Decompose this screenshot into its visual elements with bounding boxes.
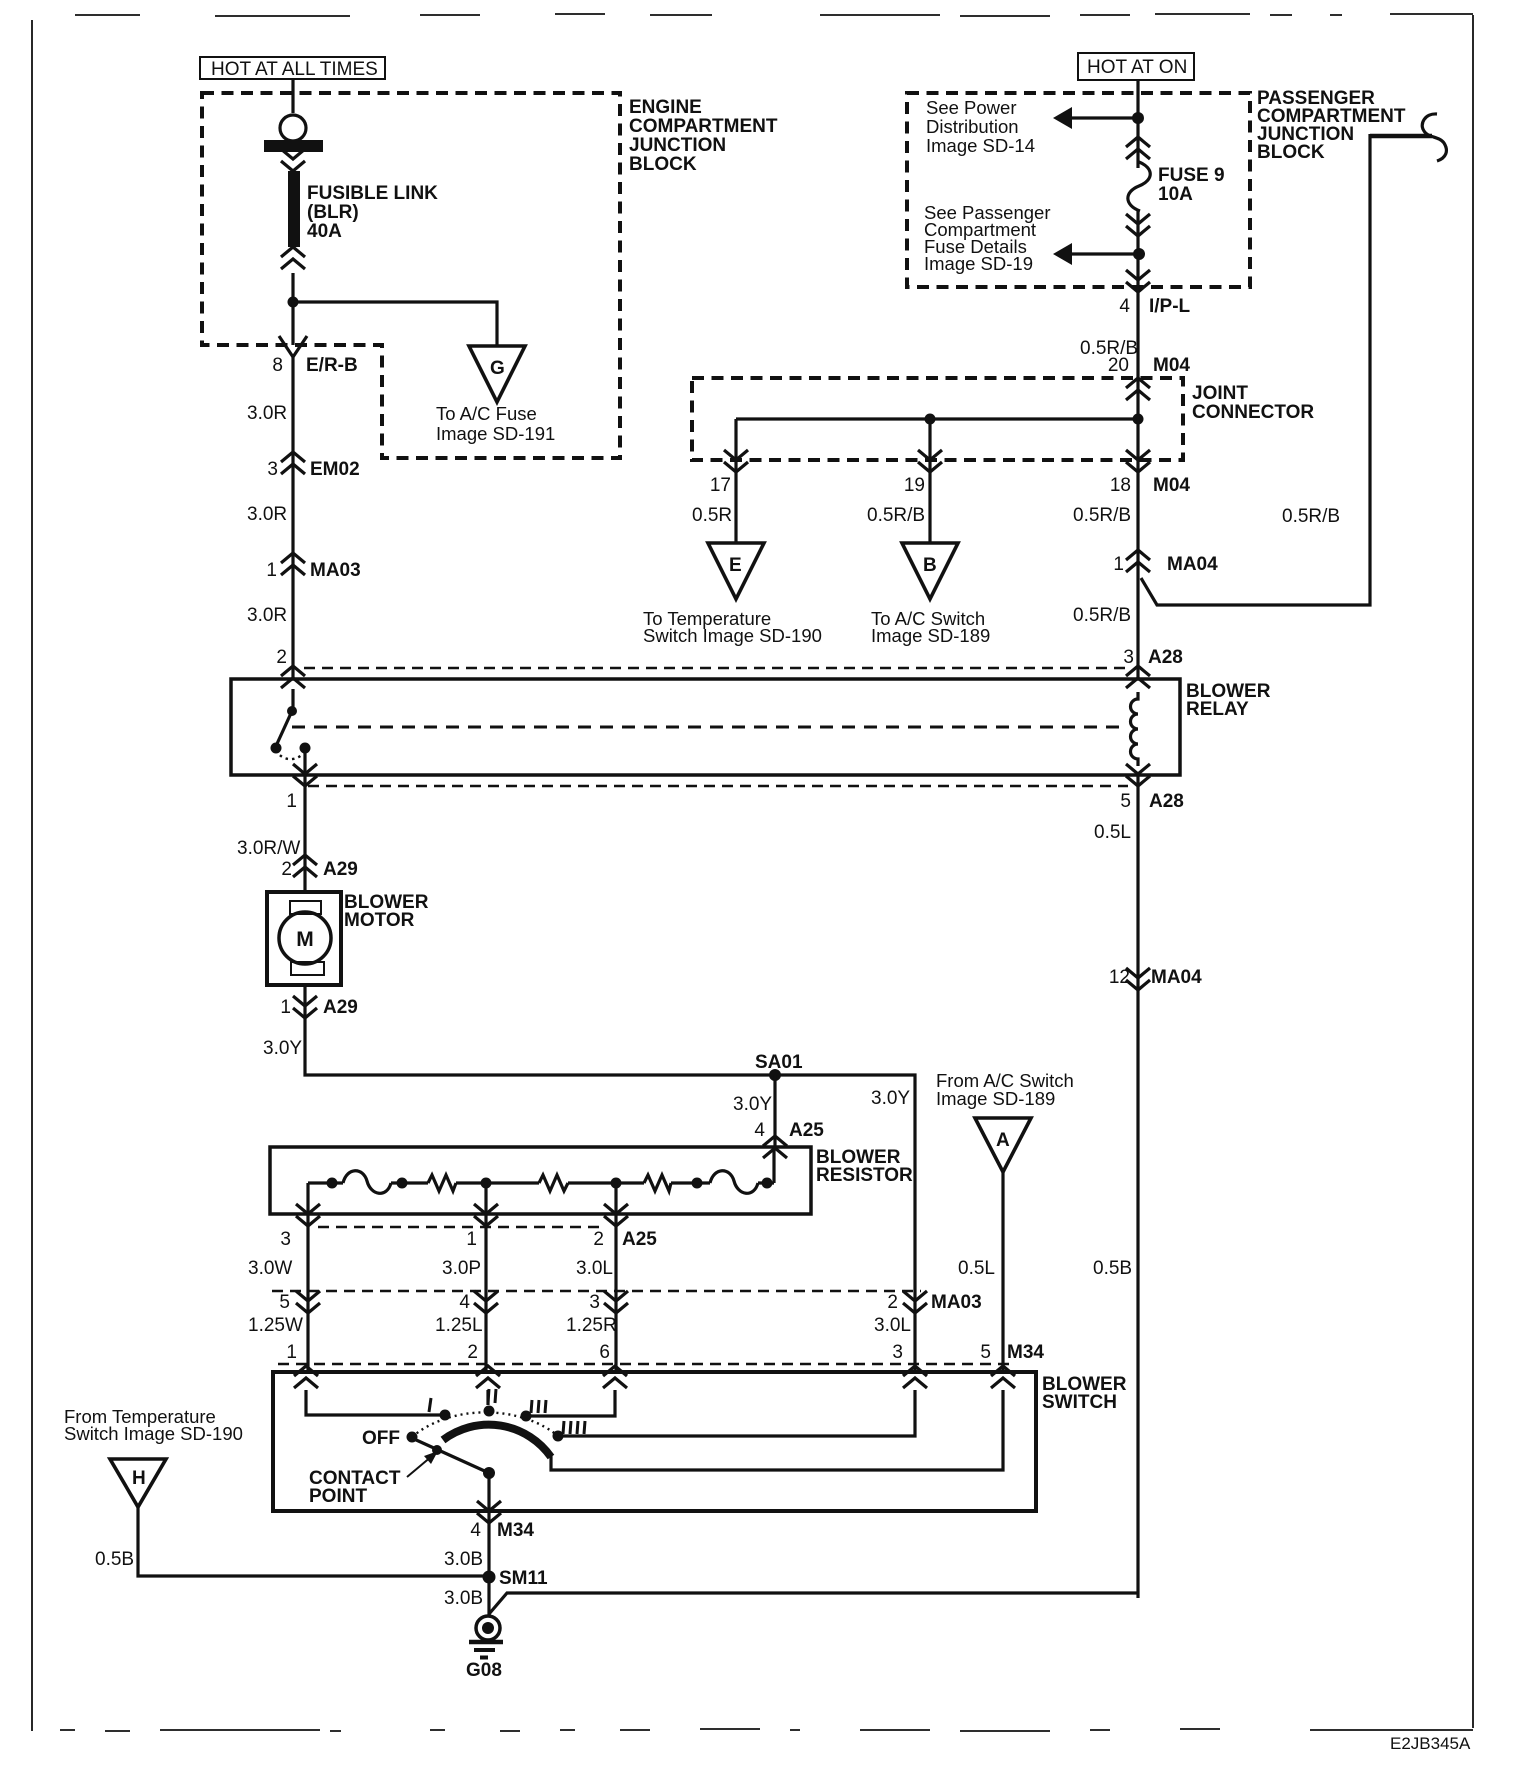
svg-text:3.0B: 3.0B xyxy=(444,1588,483,1609)
junction node xyxy=(288,297,299,308)
connector pin 18 M04 xyxy=(1126,450,1150,472)
connector pin 8 E/R-B xyxy=(279,336,307,357)
svg-text:2: 2 xyxy=(887,1292,898,1313)
blower motor body M xyxy=(279,912,331,964)
svg-text:5: 5 xyxy=(1120,791,1131,812)
svg-text:E/R-B: E/R-B xyxy=(306,355,358,376)
svg-text:3.0W: 3.0W xyxy=(248,1258,292,1279)
svg-text:0.5B: 0.5B xyxy=(1093,1258,1132,1279)
engine compartment junction block (dashed outline) xyxy=(202,93,620,458)
resistor chain node b xyxy=(397,1178,408,1189)
svg-text:2: 2 xyxy=(276,647,287,668)
svg-text:1: 1 xyxy=(286,791,297,812)
svg-text:4: 4 xyxy=(1119,296,1130,317)
blower motor brush bottom xyxy=(291,962,324,975)
svg-text:3.0B: 3.0B xyxy=(444,1549,483,1570)
switch arm contact dot xyxy=(432,1445,442,1455)
connector pin 3 MA03 xyxy=(604,1291,628,1313)
wire fuse to node xyxy=(1136,211,1139,287)
wire HOT AT ON down to fuse xyxy=(1136,80,1139,168)
svg-text:3.0L: 3.0L xyxy=(576,1258,613,1279)
connector pin 12 MA04 xyxy=(1126,968,1150,990)
svg-text:From A/C SwitchImage SD-189: From A/C SwitchImage SD-189 xyxy=(936,1070,1074,1109)
svg-text:E: E xyxy=(729,555,742,576)
wire switch pin 4 to ground xyxy=(487,1511,490,1616)
relay pin 1 chevrons xyxy=(293,764,317,786)
connector chevrons above fuse xyxy=(1126,137,1150,159)
svg-text:0.5R: 0.5R xyxy=(692,505,732,526)
switch position contact I xyxy=(440,1410,451,1421)
node above fuse xyxy=(1132,112,1144,124)
node at pin 19 branch xyxy=(925,414,936,425)
wire 0.5R/B xyxy=(1136,287,1139,380)
svg-text:3.0R: 3.0R xyxy=(247,605,287,626)
battery terminal bar xyxy=(264,140,323,152)
svg-text:1: 1 xyxy=(286,1342,297,1363)
relay switch pin node xyxy=(287,706,297,716)
wire switch pin 2 to position II xyxy=(486,1390,489,1405)
svg-text:3.0R/W: 3.0R/W xyxy=(237,838,300,859)
svg-text:1.25W: 1.25W xyxy=(248,1315,303,1336)
connector pin 2 MA03 xyxy=(903,1291,927,1313)
blower motor brush top xyxy=(290,901,321,914)
connector A25 dashed line xyxy=(318,1226,600,1229)
connector M34 dashed line xyxy=(278,1363,1010,1366)
connector pin 5 MA03 xyxy=(296,1291,320,1313)
svg-text:I/P-L: I/P-L xyxy=(1149,296,1191,317)
wire junction to G triangle xyxy=(293,302,497,345)
wire SA01 to blower resistor xyxy=(773,1075,776,1147)
wire drop to pin 19 xyxy=(928,419,931,472)
svg-text:2: 2 xyxy=(467,1342,478,1363)
wire resistor tap 1 xyxy=(484,1183,487,1372)
svg-text:HOT AT ON: HOT AT ON xyxy=(1087,57,1187,78)
wire H to SM11 xyxy=(138,1507,485,1576)
position tick III xyxy=(531,1400,546,1413)
wire to E triangle xyxy=(734,472,737,542)
wire to B triangle xyxy=(928,472,931,542)
wire switch pin 3 to position IIII xyxy=(563,1390,915,1436)
svg-text:17: 17 xyxy=(710,475,731,496)
svg-text:B: B xyxy=(923,555,937,576)
fusible link FL (BLR) 40A thick element xyxy=(288,171,300,247)
connector pin 4 M34 xyxy=(477,1501,501,1523)
svg-text:3.0R: 3.0R xyxy=(247,403,287,424)
connector pin 1 M34 xyxy=(294,1366,318,1388)
svg-text:3: 3 xyxy=(267,459,278,480)
switch position contact III xyxy=(521,1411,532,1422)
svg-text:MA03: MA03 xyxy=(931,1292,982,1313)
svg-text:2: 2 xyxy=(281,859,292,880)
svg-text:M04: M04 xyxy=(1153,355,1190,376)
relay coil xyxy=(1131,692,1139,766)
resistor element R3 xyxy=(644,1175,671,1191)
wire joint connector bus xyxy=(736,417,1138,420)
wire 3.0R trunk xyxy=(291,357,294,679)
switch position contact IIII xyxy=(553,1431,564,1442)
resistor chain node f xyxy=(762,1178,773,1189)
svg-text:0.5R/B: 0.5R/B xyxy=(1073,505,1131,526)
connector chevrons below fuse xyxy=(1126,214,1150,236)
svg-text:5: 5 xyxy=(980,1342,991,1363)
connector pin 2 A29 xyxy=(293,855,317,877)
passenger compartment junction block (dashed outline) xyxy=(907,93,1250,287)
svg-text:5: 5 xyxy=(279,1292,290,1313)
svg-text:3.0Y: 3.0Y xyxy=(263,1038,302,1059)
connector pin 4 A25 xyxy=(763,1136,787,1158)
svg-text:0.5R/B: 0.5R/B xyxy=(1073,605,1131,626)
svg-text:See PassengerCompartmentFuse D: See PassengerCompartmentFuse DetailsImag… xyxy=(924,202,1051,274)
switch position contact OFF xyxy=(407,1432,418,1443)
connector pin 4 MA03 xyxy=(474,1291,498,1313)
connector pin 1 MA03 xyxy=(281,553,305,575)
svg-text:To A/C SwitchImage SD-189: To A/C SwitchImage SD-189 xyxy=(871,608,990,646)
wire resistor tap 3 xyxy=(306,1183,309,1372)
wire from HOT AT ALL TIMES to battery terminal xyxy=(291,79,294,113)
svg-text:0.5R/B: 0.5R/B xyxy=(867,505,925,526)
wire 18 M04 down to MA04 xyxy=(1136,472,1139,679)
off-page connector H xyxy=(110,1459,166,1507)
svg-text:1: 1 xyxy=(280,997,291,1018)
svg-text:SM11: SM11 xyxy=(499,1568,548,1589)
svg-text:A25: A25 xyxy=(622,1229,657,1250)
svg-text:2: 2 xyxy=(593,1229,604,1250)
svg-text:EM02: EM02 xyxy=(310,459,360,480)
svg-text:3.0P: 3.0P xyxy=(442,1258,481,1279)
svg-text:0.5B: 0.5B xyxy=(95,1549,134,1570)
svg-text:H: H xyxy=(132,1468,146,1489)
svg-text:A25: A25 xyxy=(789,1120,824,1141)
resistor element R1 xyxy=(428,1175,456,1191)
node at pin 18 branch xyxy=(1133,414,1144,425)
connector pin 4 I/P-L xyxy=(1126,270,1150,292)
connector A28 dashed line below relay xyxy=(308,785,1128,788)
node below fuse xyxy=(1133,248,1145,260)
off-page connector B xyxy=(902,543,958,599)
svg-text:3: 3 xyxy=(280,1229,291,1250)
connector pin 6 M34 xyxy=(603,1366,627,1388)
node SM11 xyxy=(483,1571,496,1584)
relay switch output stub xyxy=(303,748,306,775)
page border bottom dashes xyxy=(60,1729,1473,1731)
connector pin 3 A25 xyxy=(296,1204,320,1226)
svg-text:E2JB345A: E2JB345A xyxy=(1390,1734,1471,1753)
contact point pointer arrow xyxy=(407,1451,438,1477)
svg-text:MA03: MA03 xyxy=(310,560,361,581)
continuation curl xyxy=(1422,114,1446,161)
resistor element coil left xyxy=(343,1171,391,1194)
svg-text:8: 8 xyxy=(272,355,283,376)
connector chevrons at fusible link bottom xyxy=(281,247,305,269)
blower resistor box xyxy=(270,1147,811,1214)
position tick II xyxy=(488,1389,496,1403)
relay mechanical link (dashed) xyxy=(292,726,1126,729)
blower motor box xyxy=(267,892,341,985)
wire right trunk MA04 to ground bus xyxy=(1136,775,1139,1598)
relay switch common stub xyxy=(291,689,294,709)
off-page connector E xyxy=(708,543,764,599)
connector pin 2 A25 xyxy=(604,1204,628,1226)
svg-text:MA04: MA04 xyxy=(1167,554,1218,575)
connector pin 1 A29 xyxy=(293,996,317,1018)
wire relay pin 1 to blower motor xyxy=(303,775,306,892)
svg-text:4: 4 xyxy=(459,1292,470,1313)
connector pin 5 M34 xyxy=(991,1366,1015,1388)
svg-text:SA01: SA01 xyxy=(755,1052,803,1073)
svg-text:3.0L: 3.0L xyxy=(874,1315,911,1336)
svg-text:20: 20 xyxy=(1108,355,1129,376)
wire switch pin 1 to position I xyxy=(306,1390,440,1415)
svg-text:M04: M04 xyxy=(1153,475,1190,496)
page border top dashes xyxy=(75,14,1473,16)
resistor chain node a xyxy=(327,1178,338,1189)
relay contact node right xyxy=(300,743,311,754)
off-page connector A xyxy=(975,1118,1031,1172)
fuse 9 element xyxy=(1128,162,1150,211)
wire junction down to pin 8 xyxy=(291,302,294,345)
svg-text:3.0Y: 3.0Y xyxy=(871,1088,910,1109)
arrow to See Passenger Compartment Fuse Details xyxy=(1053,243,1138,265)
svg-text:3: 3 xyxy=(589,1292,600,1313)
svg-text:4: 4 xyxy=(754,1120,765,1141)
svg-text:3: 3 xyxy=(1123,647,1134,668)
svg-text:3.0Y: 3.0Y xyxy=(733,1094,772,1115)
connector A28 dashed line above relay xyxy=(304,667,1128,670)
svg-text:A28: A28 xyxy=(1149,791,1184,812)
resistor element R2 xyxy=(539,1175,568,1191)
switch wiper arc xyxy=(443,1425,551,1457)
svg-text:G08: G08 xyxy=(466,1660,502,1681)
svg-text:HOT AT ALL TIMES: HOT AT ALL TIMES xyxy=(211,59,378,80)
relay pin 2 chevrons xyxy=(281,666,305,688)
relay pin 5 chevrons xyxy=(1126,764,1150,786)
wire motor to trunk xyxy=(305,985,915,1372)
blower relay box xyxy=(231,679,1180,775)
wire drop to pin 17 xyxy=(734,419,737,472)
position tick I xyxy=(429,1398,431,1412)
relay contact node left xyxy=(271,743,282,754)
wire switch pin 6 to position III xyxy=(531,1390,615,1416)
connector pin 1 MA04 xyxy=(1126,550,1150,572)
svg-text:19: 19 xyxy=(904,475,925,496)
battery terminal circle xyxy=(280,115,306,141)
svg-text:BLOWERRESISTOR: BLOWERRESISTOR xyxy=(816,1147,913,1186)
svg-text:G: G xyxy=(490,358,505,379)
svg-text:A28: A28 xyxy=(1148,647,1183,668)
page border right edge xyxy=(1472,15,1474,1728)
svg-text:18: 18 xyxy=(1110,475,1131,496)
wire wiper to pin 4 xyxy=(487,1473,490,1511)
connector MA03 dashed line xyxy=(272,1290,921,1293)
svg-text:6: 6 xyxy=(599,1342,610,1363)
joint connector (dashed outline) xyxy=(692,378,1183,460)
svg-text:0.5R/B: 0.5R/B xyxy=(1282,506,1340,527)
continuation wire from passenger junction block xyxy=(1370,134,1432,139)
wire switch pin 5 to wiper arc xyxy=(551,1390,1003,1470)
relay pin 3 chevrons xyxy=(1126,666,1150,688)
wire SM11 to right trunk xyxy=(489,1593,1138,1614)
connector pin 3 M34 xyxy=(903,1366,927,1388)
position tick IIII xyxy=(563,1421,585,1434)
svg-text:OFF: OFF xyxy=(362,1428,400,1449)
svg-text:A29: A29 xyxy=(323,997,358,1018)
svg-text:A29: A29 xyxy=(323,859,358,880)
svg-text:1.25L: 1.25L xyxy=(435,1315,483,1336)
svg-text:M34: M34 xyxy=(497,1520,534,1541)
resistor chain node c xyxy=(481,1178,492,1189)
svg-text:0.5L: 0.5L xyxy=(958,1258,995,1279)
resistor chain wire xyxy=(308,1147,774,1183)
svg-text:BLOWERSWITCH: BLOWERSWITCH xyxy=(1042,1374,1127,1413)
connector pin 2 M34 xyxy=(476,1366,500,1388)
connector pin 19 M04 xyxy=(918,450,942,472)
svg-text:12: 12 xyxy=(1109,967,1130,988)
connector pin 17 M04 xyxy=(724,450,748,472)
resistor chain node e xyxy=(692,1178,703,1189)
svg-text:0.5L: 0.5L xyxy=(1094,822,1131,843)
wire through joint connector xyxy=(1136,380,1139,472)
connector pin 3 EM02 xyxy=(281,452,305,474)
svg-text:1: 1 xyxy=(466,1229,477,1250)
node SA01 xyxy=(769,1069,781,1081)
svg-text:1: 1 xyxy=(266,560,277,581)
ground G08 xyxy=(466,1616,503,1681)
svg-text:A: A xyxy=(996,1130,1010,1151)
relay contact dotted travel xyxy=(276,750,305,759)
resistor element coil right xyxy=(710,1171,758,1194)
resistor chain node d xyxy=(611,1178,622,1189)
svg-text:3.0R: 3.0R xyxy=(247,504,287,525)
connector chevrons at fusible link top xyxy=(281,149,305,171)
wire A to switch pin 5 xyxy=(1001,1172,1004,1372)
label HOT AT ALL TIMES xyxy=(200,57,385,80)
switch wiper pivot xyxy=(483,1467,495,1479)
label HOT AT ON xyxy=(1078,53,1194,80)
svg-text:1.25R: 1.25R xyxy=(566,1315,617,1336)
blower switch box xyxy=(273,1372,1036,1511)
arrow to See Power Distribution xyxy=(1053,107,1138,129)
wire resistor tap 2 xyxy=(614,1183,617,1372)
svg-text:4: 4 xyxy=(470,1520,481,1541)
svg-text:1: 1 xyxy=(1113,554,1124,575)
svg-text:3: 3 xyxy=(892,1342,903,1363)
relay switch arm xyxy=(276,711,292,746)
svg-text:M: M xyxy=(296,928,314,951)
off-page connector G xyxy=(469,346,525,402)
wire fusible link to junction xyxy=(291,273,294,302)
page border left edge xyxy=(31,20,33,1731)
svg-text:M34: M34 xyxy=(1007,1342,1044,1363)
connector pin 1 A25 xyxy=(474,1204,498,1226)
switch position contact II xyxy=(484,1406,495,1417)
switch wiper arm xyxy=(414,1439,489,1473)
svg-text:MA04: MA04 xyxy=(1151,967,1202,988)
switch dotted travel arc xyxy=(412,1412,558,1437)
